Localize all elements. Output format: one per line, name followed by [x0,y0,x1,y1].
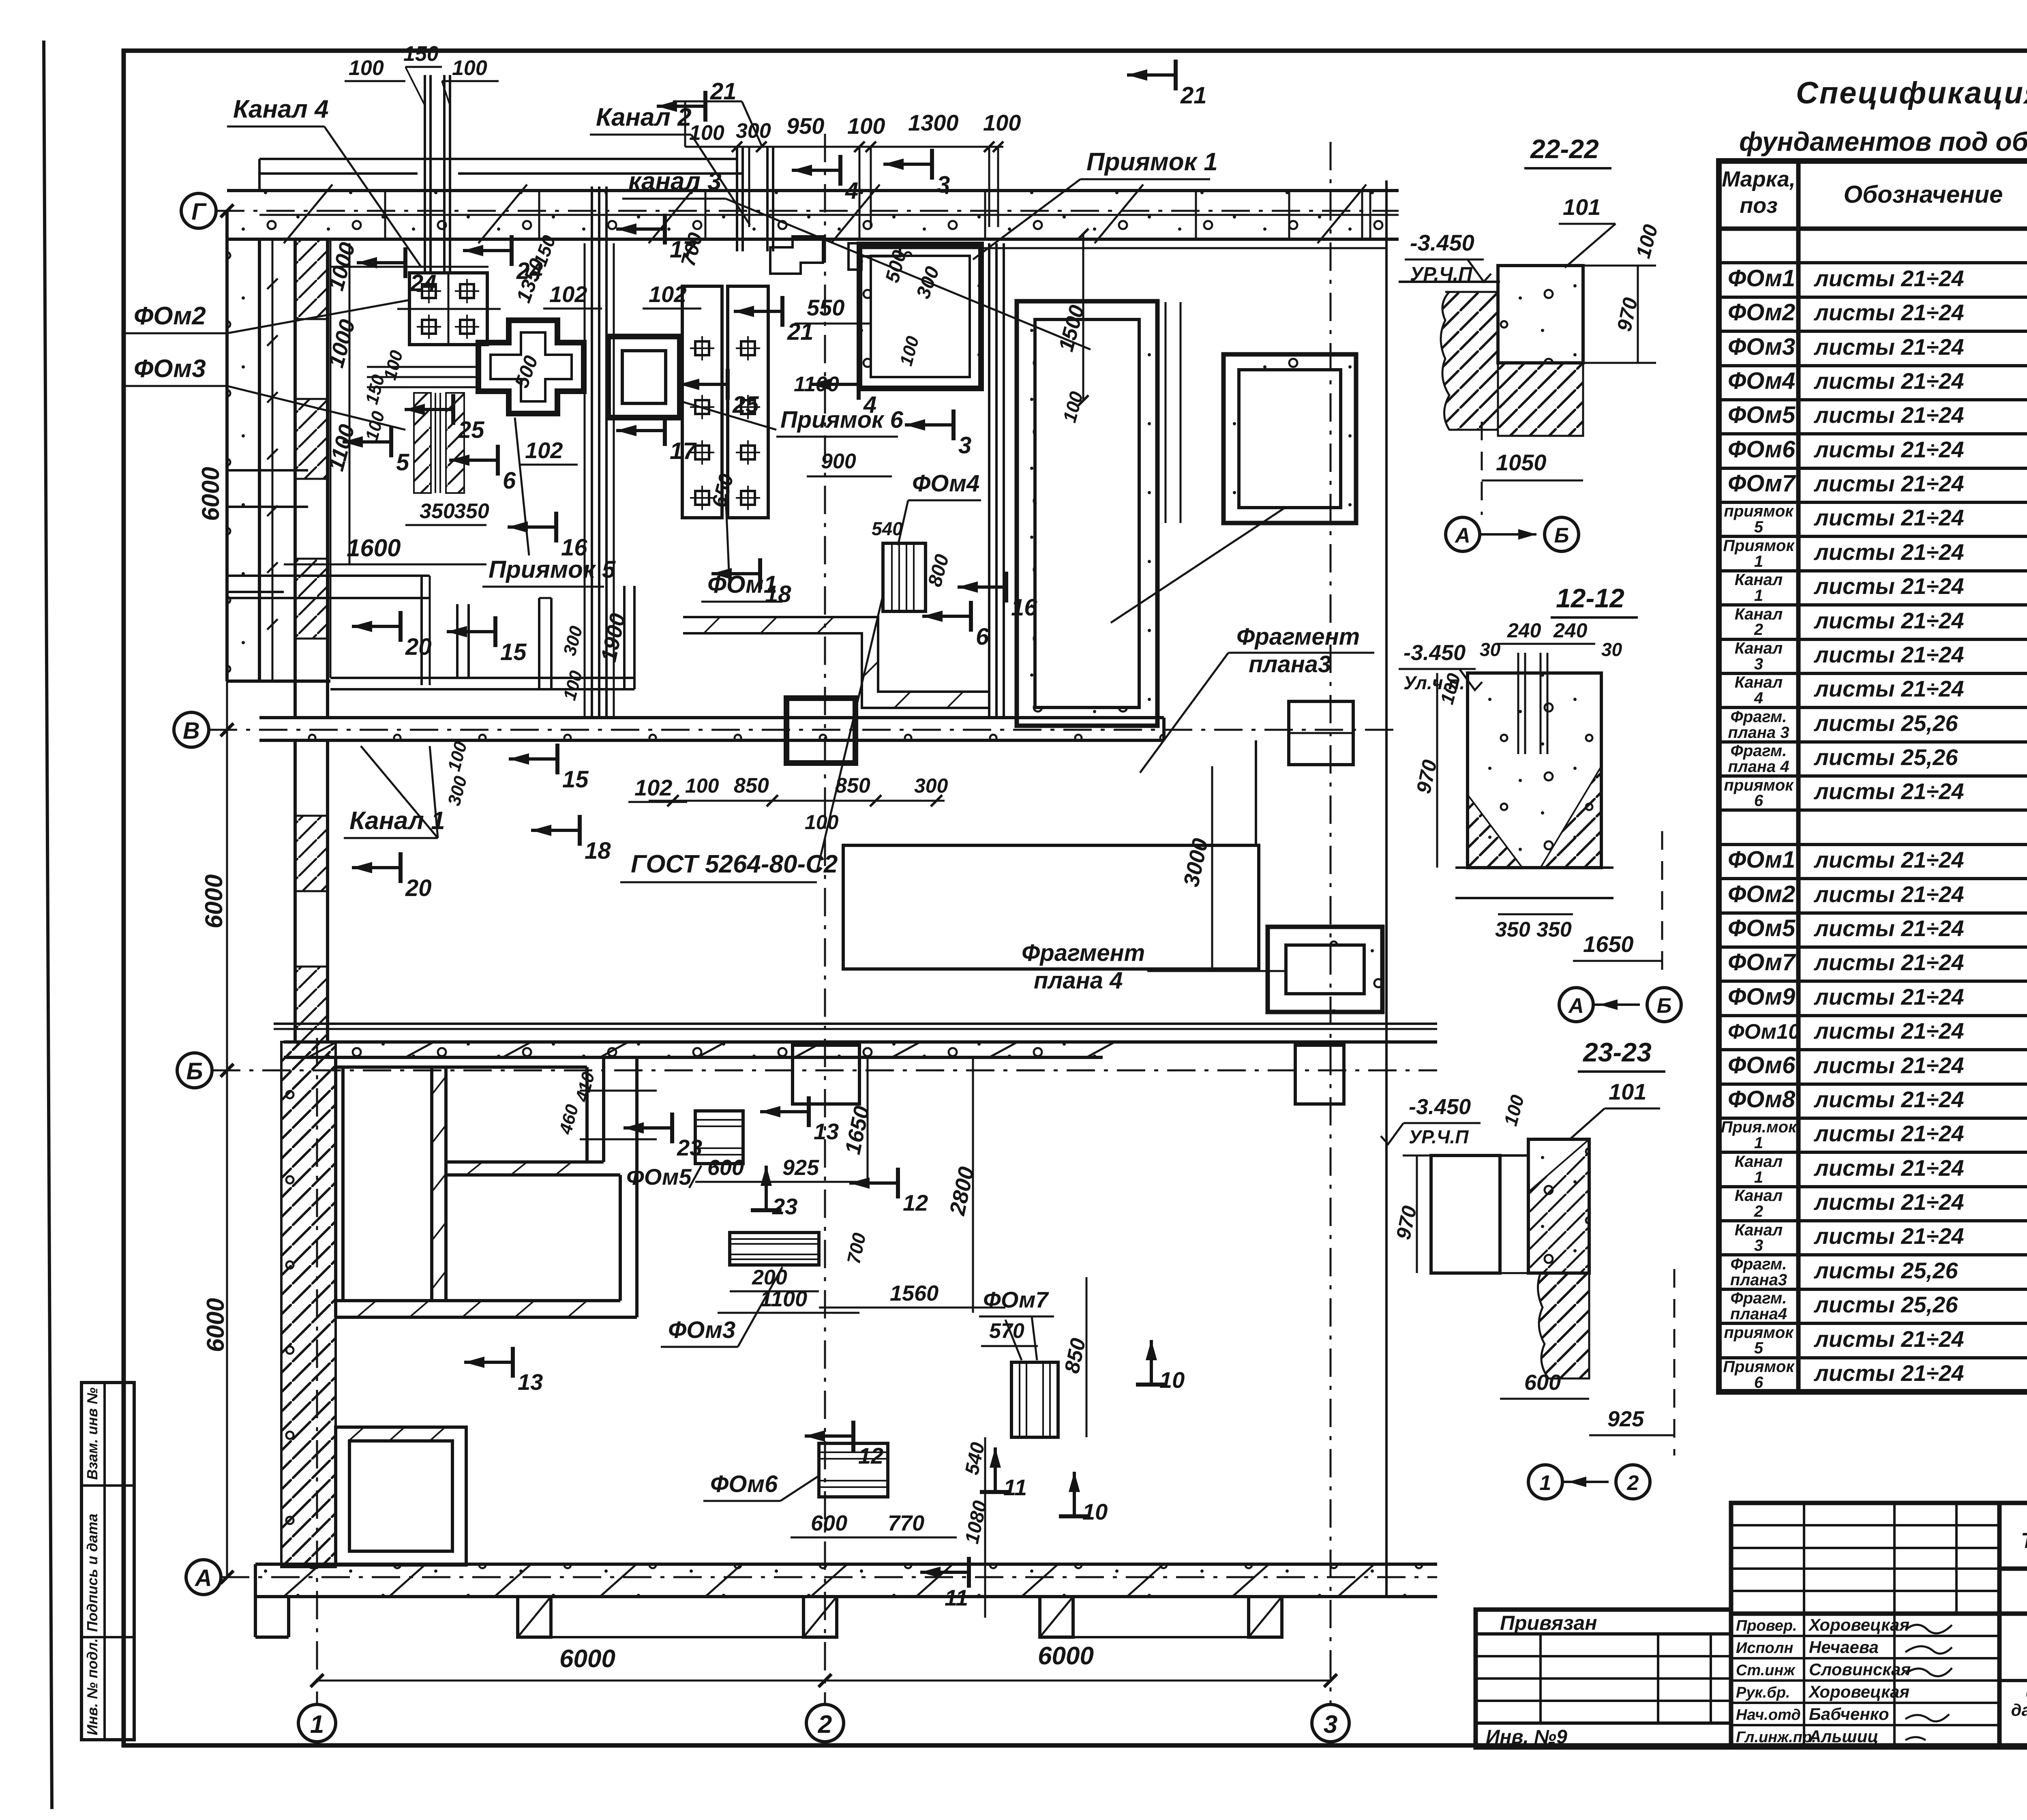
svg-text:ФОм2: ФОм2 [1728,299,1795,326]
svg-text:1050: 1050 [1496,450,1547,475]
svg-text:3: 3 [937,171,950,198]
left margin stamp boxes [81,1383,134,1740]
svg-text:6: 6 [503,467,516,494]
block at Б/3 [1295,1045,1344,1104]
svg-text:Приямок 6: Приямок 6 [780,407,904,433]
svg-text:А: А [194,1565,212,1591]
svg-text:850: 850 [835,774,870,797]
svg-text:6000: 6000 [1038,1642,1094,1670]
svg-text:ФОм6: ФОм6 [1728,1052,1796,1078]
svg-text:плана 3: плана 3 [1728,724,1789,742]
svg-text:102: 102 [525,437,563,463]
dimensions 600 925 [695,1181,868,1183]
right wall lower-right room [619,1175,622,1301]
dimension 850 rotated [1086,1277,1088,1437]
svg-text:25: 25 [458,417,484,443]
dim 1650 [1573,960,1662,962]
wall band along axis Б [284,1042,1103,1057]
left wall upper plan [227,239,259,681]
dims 350 350 [1498,913,1573,915]
svg-text:4: 4 [845,178,858,204]
svg-text:Прия.мок: Прия.мок [1721,1118,1797,1136]
svg-text:3: 3 [1754,1237,1763,1254]
block at Б/2 [793,1045,859,1104]
svg-text:Приямок 1: Приямок 1 [1086,148,1218,176]
svg-text:Спецификация к схеме р: Спецификация к схеме расположения [1796,76,2027,110]
svg-text:листы 21÷24: листы 21÷24 [1813,1223,1964,1249]
svg-text:ФОм1: ФОм1 [1728,847,1795,873]
svg-text:листы 21÷24: листы 21÷24 [1813,642,1964,667]
svg-text:Канал: Канал [1735,1153,1783,1170]
svg-text:6: 6 [1754,792,1763,810]
svg-text:Словинская: Словинская [1809,1660,1911,1679]
svg-text:Хоровецкая: Хоровецкая [1808,1615,1909,1634]
upper-left room south wall [227,575,430,577]
svg-text:23: 23 [772,1194,797,1219]
pit Приямок 1 [859,244,981,388]
flags 12 13 [849,1168,898,1198]
svg-text:3: 3 [1324,1711,1337,1739]
empty band [1999,1569,2027,1614]
bottom wall rooms [336,1299,620,1302]
svg-text:Нечаева: Нечаева [1809,1638,1879,1657]
title block signatures [1731,1614,1999,1747]
svg-text:Ст.инж: Ст.инж [1736,1662,1796,1679]
svg-text:16: 16 [1011,594,1037,621]
svg-text:листы 21÷24: листы 21÷24 [1813,778,1964,804]
room walls lower plan [336,1065,587,1069]
svg-text:550: 550 [807,295,844,320]
svg-text:листы 21÷24: листы 21÷24 [1813,1326,1964,1352]
svg-text:листы 21÷24: листы 21÷24 [1813,402,1964,428]
svg-text:листы 21÷24: листы 21÷24 [1813,984,1964,1010]
dim 600 [1500,1398,1589,1400]
svg-text:1: 1 [1754,1168,1763,1186]
svg-text:-3.450: -3.450 [1403,641,1466,665]
vertical partition [430,1067,433,1301]
svg-text:ФОм4: ФОм4 [1728,368,1795,394]
svg-text:Привязан: Привязан [1500,1612,1597,1634]
svg-text:10: 10 [1159,1367,1185,1393]
svg-text:Фрагм.: Фрагм. [1731,1255,1787,1273]
svg-text:Фрагм.: Фрагм. [1731,1289,1787,1307]
svg-text:6: 6 [976,624,989,650]
svg-text:Марка,: Марка, [1722,167,1796,191]
section flag 6 [922,601,971,632]
dimension 1560 570 [819,1307,1005,1309]
section 12-12 block [1468,673,1601,868]
fragment плана 3 square [1223,354,1356,523]
svg-text:1100: 1100 [760,1287,807,1311]
foundation ФОм4 [883,543,926,611]
svg-text:17: 17 [670,236,697,263]
specification table grid [1719,161,2027,1392]
wall below Приямок5 [456,604,459,678]
svg-text:3: 3 [958,432,971,459]
section flag 16 [508,512,556,542]
svg-text:102: 102 [649,281,686,307]
dimension 2800 rotated [972,1057,974,1313]
svg-text:240: 240 [1507,619,1541,642]
pipes near Канал2 top [736,147,738,251]
dim 970 rotated [1637,266,1639,363]
axis circles А Б (12-12) [1559,988,1593,1022]
section flag 25 [679,369,728,400]
svg-text:925: 925 [782,1155,819,1180]
second band line right part [859,247,1386,249]
svg-text:4: 4 [863,392,876,418]
svg-text:листы 21÷24: листы 21÷24 [1813,539,1964,565]
svg-text:600: 600 [707,1155,744,1180]
svg-text:ФОм5: ФОм5 [1728,402,1796,428]
svg-text:листы 21÷24: листы 21÷24 [1813,300,1964,325]
svg-text:Инв. № подл.: Инв. № подл. [84,1638,101,1735]
svg-text:ФОм7: ФОм7 [1728,949,1796,975]
svg-text:350: 350 [1536,918,1572,941]
axis circles А Б (22-22) [1446,517,1480,551]
section flag 15 [509,744,557,774]
svg-text:13: 13 [518,1369,543,1395]
svg-text:плана 4: плана 4 [1034,967,1123,994]
svg-text:21: 21 [710,78,737,105]
svg-text:6000: 6000 [197,467,224,521]
svg-text:600: 600 [811,1511,847,1535]
svg-text:листы 21÷24: листы 21÷24 [1813,950,1964,975]
svg-text:18: 18 [585,838,611,864]
small room bottom-left [336,1427,466,1565]
stepped channel wall to В axis [683,617,989,692]
svg-text:770: 770 [888,1511,924,1535]
svg-text:100: 100 [689,121,724,145]
svg-text:24: 24 [516,258,543,284]
section flag 5 [343,427,391,457]
dim 925 [1589,1434,1674,1436]
svg-text:листы 21÷24: листы 21÷24 [1813,266,1964,291]
foundation ФОм7 [1011,1362,1058,1437]
dimension bottom 6000 6000 [317,1680,1331,1682]
section flag 20 [352,611,401,642]
svg-text:Приямок: Приямок [1723,537,1795,555]
flags 23 13 [624,1113,672,1143]
svg-text:1300: 1300 [908,110,959,135]
pier strip axis 1 [294,239,297,718]
svg-text:ФОм3: ФОм3 [134,355,206,383]
channel Канал 2 vertical [584,243,586,718]
svg-text:листы 21÷24: листы 21÷24 [1813,1053,1964,1078]
svg-text:Г: Г [191,199,207,225]
pit Приямок 6 [608,337,680,418]
right wall upper-right room [585,1067,589,1162]
svg-text:900: 900 [821,450,856,473]
svg-text:300: 300 [914,774,948,797]
wall band along axis А [255,1564,1437,1597]
section 22-22 footing [1399,281,1500,283]
svg-text:850: 850 [734,774,769,797]
svg-text:6000: 6000 [200,875,227,928]
svg-text:Бабченко: Бабченко [1809,1704,1889,1724]
svg-text:Б: Б [1554,524,1569,547]
piers below А band [518,1597,551,1637]
svg-text:101: 101 [1563,194,1601,220]
svg-text:5: 5 [1754,518,1763,536]
svg-text:ФОм9: ФОм9 [1728,984,1795,1010]
section flag 24 [463,235,512,266]
dim 1050 [1482,480,1583,482]
svg-text:100: 100 [805,811,839,834]
section flag 18 [711,558,760,589]
axis Б [177,1053,212,1088]
svg-text:листы 21÷24: листы 21÷24 [1813,1189,1964,1215]
svg-text:Канал: Канал [1735,1187,1783,1205]
foundation ФОм5 [695,1111,743,1164]
svg-text:11: 11 [1003,1475,1027,1500]
section flag 21 [1127,60,1176,90]
svg-text:12-12: 12-12 [1556,583,1624,613]
svg-text:Фрагмент: Фрагмент [1022,940,1145,966]
base ledge [1455,866,1613,869]
svg-text:даментов под оборудование,: даментов под оборудование, [2011,1700,2027,1719]
svg-text:100: 100 [349,56,384,80]
svg-text:листы 21÷24: листы 21÷24 [1813,1121,1964,1146]
channel Канал 1 [259,716,1164,719]
svg-text:1: 1 [310,1711,324,1739]
svg-text:Исполн: Исполн [1736,1640,1793,1657]
svg-text:листы 21÷24: листы 21÷24 [1813,608,1964,633]
flag 11 [920,1557,969,1588]
svg-text:листы 21÷24: листы 21÷24 [1813,881,1964,907]
axis В [174,712,209,747]
svg-text:Канал: Канал [1735,673,1783,691]
svg-text:20: 20 [405,634,432,660]
svg-text:В: В [183,718,200,744]
svg-text:21: 21 [1180,82,1207,109]
svg-text:Канал 4: Канал 4 [233,95,329,123]
section flag 4 [810,369,859,400]
axis circles 1 2 (23-23) [1528,1465,1562,1499]
svg-text:12: 12 [858,1443,883,1468]
dimension 1600 [284,564,486,566]
svg-text:ФОм5: ФОм5 [1728,915,1796,941]
svg-text:листы 21÷24: листы 21÷24 [1813,676,1964,701]
section flag 17 [616,415,665,446]
svg-text:Гл.инж.пр.: Гл.инж.пр. [1736,1729,1816,1746]
tall walled room [1017,301,1157,726]
svg-text:1: 1 [1754,1134,1763,1152]
svg-text:ТП А-II -600-338.86: ТП А-II -600-338.86 [2021,1528,2027,1553]
svg-text:Взам. инв №: Взам. инв № [84,1387,101,1480]
svg-text:плана3: плана3 [1249,651,1331,677]
svg-text:15: 15 [500,639,527,665]
svg-text:приямок: приямок [1724,502,1794,520]
svg-text:листы 21÷24: листы 21÷24 [1813,368,1964,394]
dim 970 rotated [1416,1155,1418,1273]
dimensions 600 770 [791,1537,957,1539]
svg-text:листы 25,26: листы 25,26 [1813,744,1958,770]
svg-text:листы 21÷24: листы 21÷24 [1813,437,1964,462]
svg-text:листы 21÷24: листы 21÷24 [1813,1087,1964,1112]
svg-text:24: 24 [410,270,437,296]
svg-text:Альшиц: Альшиц [1808,1727,1879,1746]
svg-text:600: 600 [1524,1370,1561,1395]
title block ТП cell [1999,1503,2027,1569]
svg-text:листы 21÷24: листы 21÷24 [1813,915,1964,941]
svg-text:5: 5 [1754,1339,1763,1357]
pit Приямок 5 [478,320,584,414]
foundation ФОм3 strips [414,393,431,493]
horizontal partition right cell [446,1160,604,1164]
svg-text:листы 21÷24: листы 21÷24 [1813,1155,1964,1181]
svg-text:Рук.бр.: Рук.бр. [1736,1684,1790,1701]
section flag 15 [447,616,495,647]
svg-text:УР.Ч.П: УР.Ч.П [1409,1126,1469,1147]
svg-text:5: 5 [396,449,409,476]
dimensions 200 1100 [730,1291,819,1293]
svg-text:1: 1 [1540,1471,1551,1495]
foundation ФОм2 [409,273,487,345]
svg-text:фундаментов под оборудование ,: фундаментов под оборудование , каналов, … [1739,126,2027,156]
svg-text:100: 100 [685,774,719,797]
svg-text:Подпись и дата: Подпись и дата [84,1513,101,1632]
flags 10 11 [980,1447,1011,1492]
block at В/3 [1289,701,1353,765]
section 23-23 blocks [1431,1155,1500,1273]
dimension 3000 rotated [1211,766,1213,969]
svg-text:ФОм2: ФОм2 [1728,881,1795,907]
svg-text:22-22: 22-22 [1530,134,1599,164]
svg-text:листы 25,26: листы 25,26 [1813,1258,1958,1283]
witness lines of top chain [736,147,738,227]
svg-text:листы 21÷24: листы 21÷24 [1813,505,1964,530]
svg-text:1600: 1600 [347,534,401,562]
foundation ФОм1 pads [682,286,722,518]
foundation ФОм3 lower [730,1233,819,1265]
svg-text:листы 21÷24: листы 21÷24 [1813,1360,1964,1386]
svg-text:Хоровецкая: Хоровецкая [1808,1682,1909,1701]
channel from Приямок1 down (x~2440) [988,243,990,718]
nested corner walls right of pads [770,236,823,274]
svg-text:ФОм7: ФОм7 [1728,470,1796,497]
svg-text:Обозначение: Обозначение [1843,181,2003,208]
svg-text:плана3: плана3 [1730,1271,1787,1289]
svg-text:6000: 6000 [559,1645,615,1673]
svg-text:4: 4 [1754,689,1763,707]
svg-text:канал 3: канал 3 [628,167,722,195]
svg-text:150: 150 [403,42,439,66]
svg-text:30: 30 [1480,639,1501,660]
svg-text:6: 6 [1754,1374,1763,1391]
section flag 17 [616,214,665,244]
svg-text:Фрагм.: Фрагм. [1731,742,1787,760]
svg-text:350: 350 [420,499,455,523]
svg-text:1: 1 [1754,587,1763,605]
svg-text:Приямок 5: Приямок 5 [489,556,616,583]
svg-text:Фрагмент: Фрагмент [1236,624,1360,650]
svg-text:листы 25,26: листы 25,26 [1813,1292,1958,1317]
svg-text:Б: Б [186,1058,203,1085]
svg-text:30: 30 [1601,639,1622,660]
dimension 1650 rotated [867,1057,869,1182]
section flag 3 [905,409,954,440]
svg-text:листы 21÷24: листы 21÷24 [1813,573,1964,599]
svg-text:-3.450: -3.450 [1409,1095,1471,1119]
svg-text:102: 102 [634,775,672,800]
svg-text:ФОм8: ФОм8 [1728,1086,1796,1113]
wide room above Б [843,845,1259,969]
section flag 24 [357,247,405,278]
section flag 4 [792,155,840,186]
axis 3 [1312,1704,1349,1742]
svg-text:ФОм6: ФОм6 [710,1471,778,1497]
svg-text:17: 17 [670,438,697,464]
svg-text:1650: 1650 [1583,931,1634,957]
pier strip axis 1 lower part [294,740,297,1042]
svg-text:25: 25 [732,392,759,418]
dimension left 6000 x3 [226,211,228,1577]
axis 2 [806,1704,844,1742]
svg-text:101: 101 [1609,1079,1646,1104]
svg-text:23: 23 [677,1135,702,1160]
name cell [1999,1614,2027,1747]
svg-text:240: 240 [1553,619,1588,642]
svg-text:20: 20 [405,875,432,901]
foundation ФОм6 [819,1443,888,1497]
svg-text:Приямок: Приямок [1723,1358,1795,1376]
plan right boundary wall line [1385,180,1388,1597]
svg-text:13: 13 [814,1119,839,1144]
svg-text:100: 100 [847,113,885,139]
thick left wall lower plan (hatched) [281,1042,336,1567]
svg-text:2: 2 [1754,1203,1763,1220]
svg-text:23-23: 23-23 [1582,1037,1652,1067]
svg-text:-3.450: -3.450 [1410,230,1474,255]
channel Канал 4 pipes [424,75,426,272]
svg-text:540: 540 [872,518,903,539]
axis 1 [298,1704,336,1742]
svg-text:2: 2 [1627,1471,1639,1495]
svg-text:ФОм10: ФОм10 [1728,1020,1800,1044]
svg-text:300: 300 [736,119,771,143]
svg-text:ФОм3: ФОм3 [1728,334,1795,360]
foundation block at В/2 [786,698,855,763]
fragment плана 4 ring [1268,927,1382,1012]
dimensions 1000/1000/1100 rotated [349,243,351,564]
svg-text:Канал: Канал [1735,639,1783,657]
wall band along axis Г [227,191,1399,239]
svg-text:листы 21÷24: листы 21÷24 [1813,334,1964,360]
svg-text:ФОм7: ФОм7 [983,1287,1049,1312]
svg-text:плана4: плана4 [1730,1305,1787,1323]
pipes in block [1517,653,1519,754]
svg-text:Провер.: Провер. [1736,1617,1797,1634]
svg-text:ГОСТ 5264-80-С2: ГОСТ 5264-80-С2 [631,850,838,878]
svg-text:ФОм2: ФОм2 [134,302,206,330]
svg-text:6000: 6000 [202,1298,229,1352]
section flag 16 [958,572,1006,602]
svg-text:листы 21÷24: листы 21÷24 [1813,1018,1964,1044]
thin lines above Б band [274,1023,1437,1025]
channel above Г band [259,158,737,160]
svg-text:плана 4: плана 4 [1728,758,1789,776]
svg-text:А: А [1568,994,1584,1018]
svg-text:Канал: Канал [1735,571,1783,589]
section flag 20 [352,852,401,883]
right closure wall below канал1 [1255,740,1257,844]
svg-text:ФОм5: ФОм5 [626,1164,692,1190]
svg-text:10: 10 [1082,1499,1108,1524]
axis А [186,1560,221,1595]
svg-text:Инв. №9: Инв. №9 [1486,1726,1567,1748]
svg-text:А: А [1454,524,1470,547]
